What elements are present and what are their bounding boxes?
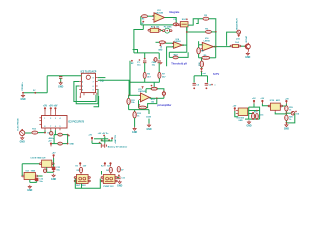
junction output/vertical — [215, 46, 217, 48]
wire K1 bottom drop — [81, 184, 83, 189]
svg-text:+9V: +9V — [285, 98, 289, 100]
svg-text:PROBE+: PROBE+ — [22, 81, 24, 90]
junction IC7 out — [53, 163, 55, 165]
wire R8 bottom — [198, 54, 200, 58]
wire R4 left link — [146, 88, 151, 90]
polarity mark right of R16 — [68, 135, 70, 137]
wire into battery — [92, 142, 101, 144]
wire bottom bus threshold — [130, 81, 159, 83]
junction Q1 base — [244, 45, 246, 47]
capacitor C12 body — [35, 178, 39, 181]
RV1 pin left — [148, 29, 150, 31]
junction amp input — [128, 94, 130, 96]
R6 pin left — [230, 45, 232, 47]
svg-text:+9V: +9V — [252, 98, 256, 100]
junction bottom bus — [129, 81, 131, 83]
svg-text:3: 3 — [82, 86, 83, 88]
wire tap from threshold bus — [153, 82, 155, 87]
svg-text:BUZZER12V: BUZZER12V — [237, 17, 239, 29]
wire 555 pinB to loop — [249, 113, 253, 115]
svg-text:5: 5 — [60, 126, 61, 128]
wire R1 left branch — [140, 16, 142, 25]
wire R16 to junction — [62, 134, 67, 136]
op-amp IC6 comparator B — [201, 42, 215, 50]
wire R9 left — [199, 57, 202, 59]
wire pi-filter top — [194, 75, 207, 77]
wire IC3 pin6 to amp — [98, 80, 129, 95]
IC2 bottom pin stub x=60.0 — [59, 128, 61, 130]
plus mark battery — [99, 142, 101, 144]
wire lower link — [129, 109, 149, 111]
wire 555 bottom loop — [245, 118, 260, 120]
svg-text:BC547: BC547 — [245, 35, 248, 42]
wire junction to pi — [201, 72, 203, 76]
power flag +5V at x=50.8 — [49, 106, 54, 111]
relay K1 body — [76, 175, 88, 184]
svg-text:GND: GND — [69, 144, 74, 146]
wire to RV2 — [169, 56, 173, 58]
junction C11 bottom — [53, 170, 55, 172]
plus mark R15 — [138, 104, 140, 106]
diode D6 over K2 — [109, 167, 112, 172]
IC3 right pin 8 — [96, 89, 98, 91]
wire threshold top bus — [134, 52, 159, 54]
wire to buzzer — [227, 32, 237, 46]
wire bus to R5 — [187, 31, 206, 33]
junction above J1 — [21, 129, 23, 131]
wire supply rail drop — [46, 76, 48, 93]
capacitor C6 — [205, 83, 208, 85]
wire right drop — [148, 110, 150, 114]
resistor R11 — [127, 98, 130, 104]
junction right column top — [67, 134, 69, 136]
IC3 right pin 6 — [96, 81, 98, 83]
resistor R10 — [200, 61, 203, 67]
wire R12 bottom — [134, 118, 136, 127]
pin stub under flag x=50.8 — [50, 111, 52, 116]
IC3 DIP-8 body — [81, 73, 95, 92]
svg-text:4: 4 — [82, 88, 83, 91]
svg-text:GND: GND — [51, 179, 56, 181]
resistor R20 — [285, 115, 288, 120]
IC3 pin-1 index circle — [86, 75, 90, 79]
svg-text:C13: C13 — [121, 177, 124, 179]
IC3 bottom pin d — [96, 93, 98, 95]
IC10 pin right — [280, 105, 282, 107]
wire R10 to D3 — [201, 67, 203, 68]
plus mark C1 — [139, 59, 141, 61]
wire SG1 to R2 — [188, 19, 203, 25]
R6 pin right — [239, 45, 241, 47]
wire feedback right — [215, 47, 217, 58]
P2 pin right — [170, 30, 172, 32]
ground under C7 — [58, 81, 63, 88]
junction R18 bottom — [252, 118, 254, 120]
wire R6 to Q1 base — [241, 45, 245, 47]
power flag led — [285, 100, 287, 104]
ground right of R12 — [146, 124, 151, 131]
wire pi left — [193, 76, 195, 83]
wire R4 right loop — [157, 89, 164, 99]
svg-text:Battery 9V alkaline: Battery 9V alkaline — [108, 146, 128, 149]
junction R3 right — [164, 41, 166, 43]
wire C1 to R6b — [144, 63, 146, 73]
wire feedback bus node N1 — [141, 24, 176, 26]
wire R2 to vertical — [209, 19, 216, 32]
op-amp IC4 comparator A — [172, 42, 184, 49]
svg-text:4: 4 — [60, 117, 61, 120]
junction C15 bottom — [256, 118, 258, 120]
wire IC10 out to rail — [283, 105, 287, 107]
junction amp output — [156, 97, 158, 99]
wire R5 to junction — [211, 31, 215, 33]
wire led rail — [285, 104, 287, 123]
wire into R3 — [156, 41, 160, 43]
ground under J1 — [20, 136, 25, 143]
wire C2 to R7 — [158, 63, 160, 73]
junction under D3 — [201, 71, 203, 73]
svg-text:GND: GND — [20, 142, 25, 144]
ground under C13 — [117, 180, 122, 187]
IC7 pin left — [39, 163, 41, 165]
power flag row2 — [50, 143, 52, 147]
junction C13 top — [118, 175, 120, 177]
cap C14 small — [44, 169, 47, 173]
ground 555 — [246, 120, 251, 127]
resistor R6 body — [232, 45, 238, 48]
junction RV3 bottom — [163, 95, 164, 96]
wire amp output — [150, 97, 164, 99]
trimmer RV2 threshold — [173, 56, 178, 59]
wire 555 left supply — [235, 111, 238, 117]
wire loop around IC3 1 — [74, 82, 96, 102]
wire 555 top loop — [249, 107, 260, 119]
svg-text:6: 6 — [93, 86, 94, 88]
IC9 pin left A — [236, 110, 238, 112]
svg-text:6: 6 — [55, 126, 56, 128]
IC3 bottom pin c — [93, 93, 95, 95]
wire right drop 2 — [148, 119, 150, 124]
wire into pH amp — [129, 94, 140, 96]
component SG1 body — [180, 22, 188, 27]
wire to R16 — [54, 134, 58, 136]
IC3 right pin 7 — [96, 85, 98, 87]
plus mark SG1 — [186, 18, 188, 20]
wire flag b to next block — [262, 104, 268, 106]
junction C6 bottom — [206, 87, 208, 89]
junction feedback — [175, 24, 177, 26]
polarity arrow under buzzer — [237, 35, 240, 38]
svg-text:GND: GND — [58, 87, 63, 89]
power dot C — [101, 139, 103, 141]
junction C15 top — [256, 110, 258, 112]
wire compB out to R6 box — [213, 46, 230, 48]
wire flag to rail — [53, 158, 55, 164]
resistor R6b — [143, 73, 146, 79]
Q1 emitter stub — [248, 49, 250, 52]
svg-text:2: 2 — [82, 81, 83, 83]
svg-text:C10 IN 7805 OUT: C10 IN 7805 OUT — [30, 158, 46, 160]
power flag bat left — [91, 137, 93, 141]
pin stub under flag x=45.0 — [44, 111, 46, 116]
buzzer LS1 circle — [237, 30, 241, 34]
wire C7 down — [60, 78, 62, 82]
wire K2 to C13 — [117, 177, 119, 179]
capacitor C15 — [256, 114, 259, 119]
K1 pin left bottom — [74, 180, 76, 182]
power pin dot — [151, 85, 153, 87]
diode D3 — [200, 68, 203, 71]
svg-text:CA3140: CA3140 — [138, 90, 146, 93]
wire IC10 bottom pin — [275, 112, 286, 114]
wire IC7 gnd pin — [46, 167, 48, 172]
power flag +5V at x=45.0 — [43, 106, 48, 111]
power dot B — [111, 137, 113, 139]
svg-text:LM741: LM741 — [204, 39, 211, 42]
LED D4 — [291, 111, 295, 115]
wire IC8 out — [38, 175, 43, 177]
svg-text:Threshold pH: Threshold pH — [171, 63, 187, 66]
wire R6b bottom — [144, 78, 146, 82]
power flag reg — [53, 154, 55, 158]
wire loop left — [168, 52, 170, 57]
capacitor C2b — [158, 61, 161, 63]
ground led rail — [284, 123, 289, 130]
resistor R8 — [197, 48, 201, 54]
svg-text:PUMP 12V: PUMP 12V — [103, 186, 114, 188]
crystal X1 — [50, 132, 53, 135]
IC3 left pin 4 — [79, 89, 81, 91]
IC2 left pin 1 — [39, 120, 41, 122]
wire C12 bottom — [36, 181, 38, 182]
capacitor C7 decoupling — [59, 77, 62, 79]
op-amp IC2 integrator — [152, 13, 166, 22]
power flag K2a — [104, 162, 106, 166]
junction gnd bus B — [34, 92, 36, 94]
svg-text:C15: C15 — [260, 115, 263, 117]
svg-text:IC2 PIC12F675: IC2 PIC12F675 — [68, 122, 85, 124]
svg-text:GND: GND — [245, 57, 250, 59]
timer IC9 555 body — [238, 108, 248, 116]
junction R4 left — [150, 88, 152, 90]
junction R2/R5 node — [215, 31, 217, 33]
IC2 bottom pin stub x=55.4 — [54, 128, 56, 130]
wire ground bus left — [23, 92, 47, 94]
wire R3 to op-amp — [165, 42, 173, 44]
wire supply drop A — [104, 136, 106, 143]
wire vertical via SG1 — [186, 27, 188, 52]
diode D2 — [154, 58, 157, 62]
power flag +9V at x=55.4 — [53, 106, 58, 111]
K1 coil mark — [78, 177, 87, 181]
svg-text:+9V: +9V — [52, 152, 56, 154]
ground under Q1 — [245, 52, 250, 59]
IC2 left pin 2 — [39, 123, 41, 125]
wire supply row 2 — [101, 140, 113, 142]
RV1 wiper — [154, 27, 156, 29]
ground left — [20, 94, 25, 101]
svg-text:+BATT9V: +BATT9V — [114, 134, 117, 143]
wire gnd link 2 — [30, 181, 37, 183]
resistor R7 — [158, 73, 161, 79]
transistor Q1 — [245, 44, 250, 49]
power dot D — [108, 139, 110, 141]
gate IC10 body — [270, 103, 280, 110]
wire long link to lower-left block — [134, 30, 143, 53]
slash mark — [160, 62, 162, 64]
svg-text:D7: D7 — [121, 169, 123, 171]
wire supply drop B — [111, 139, 113, 141]
IC8 pin left — [22, 175, 24, 177]
D6 lower stub — [110, 173, 112, 175]
pin stub under flag x=55.4 — [54, 111, 56, 116]
junction led bottom — [286, 122, 288, 124]
svg-text:D6: D6 — [106, 170, 108, 172]
wire in- link — [199, 44, 203, 46]
wire R15 right loop — [147, 98, 157, 107]
resistor R19 — [285, 106, 288, 111]
wire RV2 right loop — [178, 52, 188, 57]
svg-text:R8: R8 — [201, 50, 203, 52]
svg-text:GND: GND — [132, 132, 137, 134]
K2 pin right bottom — [115, 180, 117, 182]
junction under IC2 pin — [44, 132, 46, 134]
wire R1 to op-amp — [147, 15, 154, 17]
wire left column — [53, 135, 55, 144]
wire chain down — [201, 58, 203, 61]
power flag 555 a — [253, 100, 255, 104]
junction ref top — [131, 60, 133, 62]
svg-text:Integrate: Integrate — [169, 11, 180, 14]
svg-text:X1: X1 — [47, 133, 49, 135]
wire loop around IC3 2 — [76, 86, 98, 104]
power flag 555 b — [261, 100, 263, 104]
wire LED return — [286, 113, 294, 123]
junction right column bottom — [67, 143, 69, 145]
wire SG1 bottom drop — [186, 27, 188, 32]
regulator IC7 7805 — [42, 160, 52, 167]
regulator IC8 7805 — [24, 172, 35, 179]
junction C5 bottom — [193, 87, 195, 89]
relay K2 body — [103, 175, 115, 184]
svg-text:ELECTRODE: ELECTRODE — [17, 118, 19, 131]
svg-text:LM393: LM393 — [174, 41, 181, 43]
wire 555 pinA to loop — [249, 110, 260, 112]
svg-text:GND: GND — [27, 190, 32, 192]
K1 pin right top — [88, 177, 90, 179]
wire IC3 pin7 out — [98, 77, 106, 79]
K2 coil mark — [105, 177, 114, 181]
svg-text:D5: D5 — [77, 170, 79, 172]
IC3 left pin 3 — [79, 85, 81, 87]
wire in+ branch — [167, 47, 174, 66]
power flag K1 — [79, 162, 81, 166]
wire flag drop — [91, 141, 93, 144]
capacitor C11 body — [52, 167, 56, 170]
resistor R5 — [206, 30, 212, 33]
pin below R3 — [159, 44, 161, 46]
IC3 left pin 2 — [79, 81, 81, 83]
IC3 bottom pin b — [83, 93, 85, 96]
wire pin to lower row — [54, 130, 55, 134]
IC7 pin right — [52, 163, 54, 165]
wire upper jog — [133, 50, 138, 53]
junction C1 top — [144, 58, 146, 60]
resistor R9 feedback — [202, 56, 210, 59]
resistor R17 — [58, 142, 63, 145]
resistor R16 — [58, 133, 63, 136]
capacitor C5 — [193, 83, 196, 85]
IC3 right pin 5 — [96, 77, 98, 79]
IC9 pin right B — [248, 113, 249, 115]
svg-text:GND: GND — [20, 99, 25, 101]
svg-text:S PV: S PV — [213, 72, 219, 76]
svg-text:8: 8 — [93, 77, 94, 79]
wire left rail to IC8 — [21, 164, 23, 176]
wire pi right — [207, 76, 209, 83]
wire drop to C2 — [158, 53, 160, 59]
junction SG1 bus — [186, 31, 188, 33]
wire R8 top — [198, 45, 200, 48]
wire loop around IC3 3 — [94, 96, 99, 107]
wire J1 to R13 — [25, 132, 32, 134]
resistor R2 — [203, 17, 209, 20]
wire right column — [67, 135, 69, 144]
K1 pin left top — [74, 177, 76, 179]
IC3 bottom pin dot — [80, 96, 82, 98]
ground under R12 — [132, 127, 137, 134]
wire flag to R17 — [52, 143, 58, 145]
wire op-amp output — [165, 18, 177, 25]
wire C11 top — [53, 164, 55, 167]
wire K1/K2 bottom bus — [75, 179, 100, 189]
D5 lower stub — [80, 173, 82, 175]
svg-text:5: 5 — [93, 89, 94, 91]
junction RV3 top — [163, 91, 164, 92]
IC10 bottom pin stub — [274, 110, 276, 112]
capacitor C2 on feedback — [173, 23, 178, 26]
plus mark LED — [295, 111, 297, 113]
resistor R3 — [159, 41, 165, 44]
connector P2 BNC jack — [165, 28, 170, 33]
resistor R1 — [142, 15, 148, 18]
power flag 555 left — [234, 107, 236, 111]
wire into IC7 — [22, 163, 39, 165]
wire in+ drop — [138, 100, 140, 107]
svg-text:+9V: +9V — [260, 98, 264, 100]
svg-text:7: 7 — [50, 126, 51, 128]
wire RV1 to P2 — [161, 30, 163, 32]
trimmer RV3 — [162, 92, 165, 95]
wire compA out — [182, 44, 187, 46]
power dot A — [103, 135, 105, 137]
SG1 inner mark — [182, 23, 187, 25]
RV1 pin right — [159, 29, 161, 31]
wire left reference rail — [129, 61, 131, 96]
P2 pin left — [162, 30, 164, 32]
svg-text:3: 3 — [55, 118, 56, 120]
plus mark C2 — [153, 59, 155, 61]
diode D5 over K1 — [79, 167, 82, 172]
junction under R3 — [160, 45, 162, 47]
IC8 pin right — [35, 175, 37, 177]
junction R4 right — [156, 88, 158, 90]
IC2 left pin 0 — [39, 117, 41, 119]
svg-text:+9V: +9V — [233, 105, 237, 107]
connector J1 circle — [20, 130, 25, 135]
wire 555 left loop — [248, 107, 250, 119]
wire R12 top stub — [134, 110, 136, 112]
